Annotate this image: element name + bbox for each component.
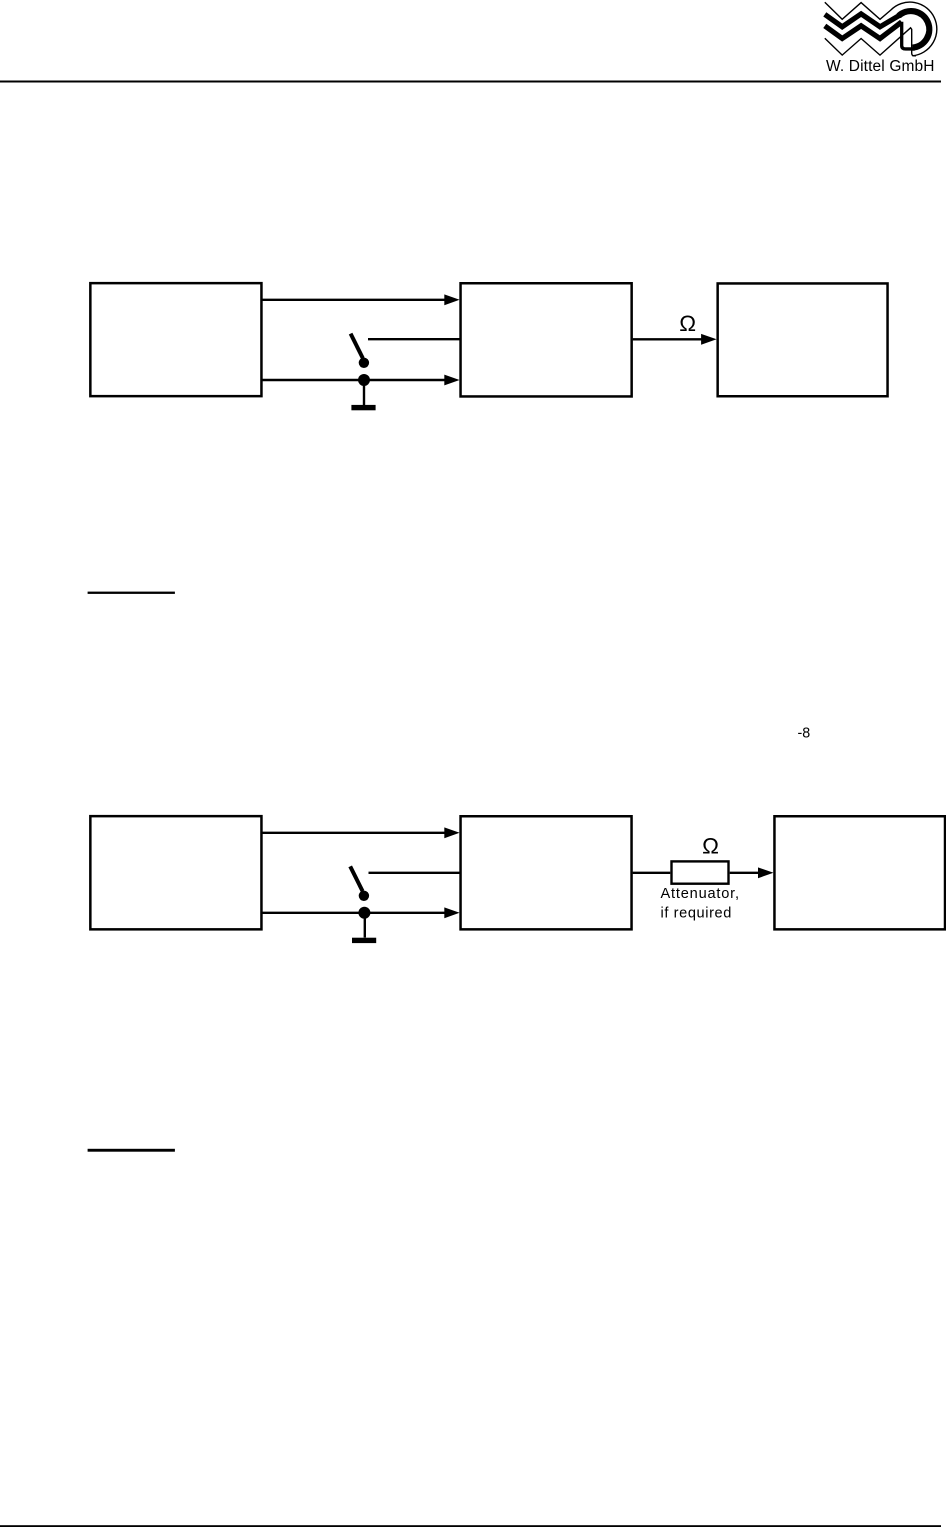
- svg-text:Attenuator,: Attenuator,: [661, 886, 740, 902]
- svg-text:Ω: Ω: [679, 311, 696, 336]
- svg-text:W. Dittel GmbH: W. Dittel GmbH: [826, 58, 935, 75]
- svg-text:-8: -8: [798, 725, 811, 741]
- svg-text:if required: if required: [661, 905, 733, 921]
- svg-text:Ω: Ω: [702, 834, 719, 859]
